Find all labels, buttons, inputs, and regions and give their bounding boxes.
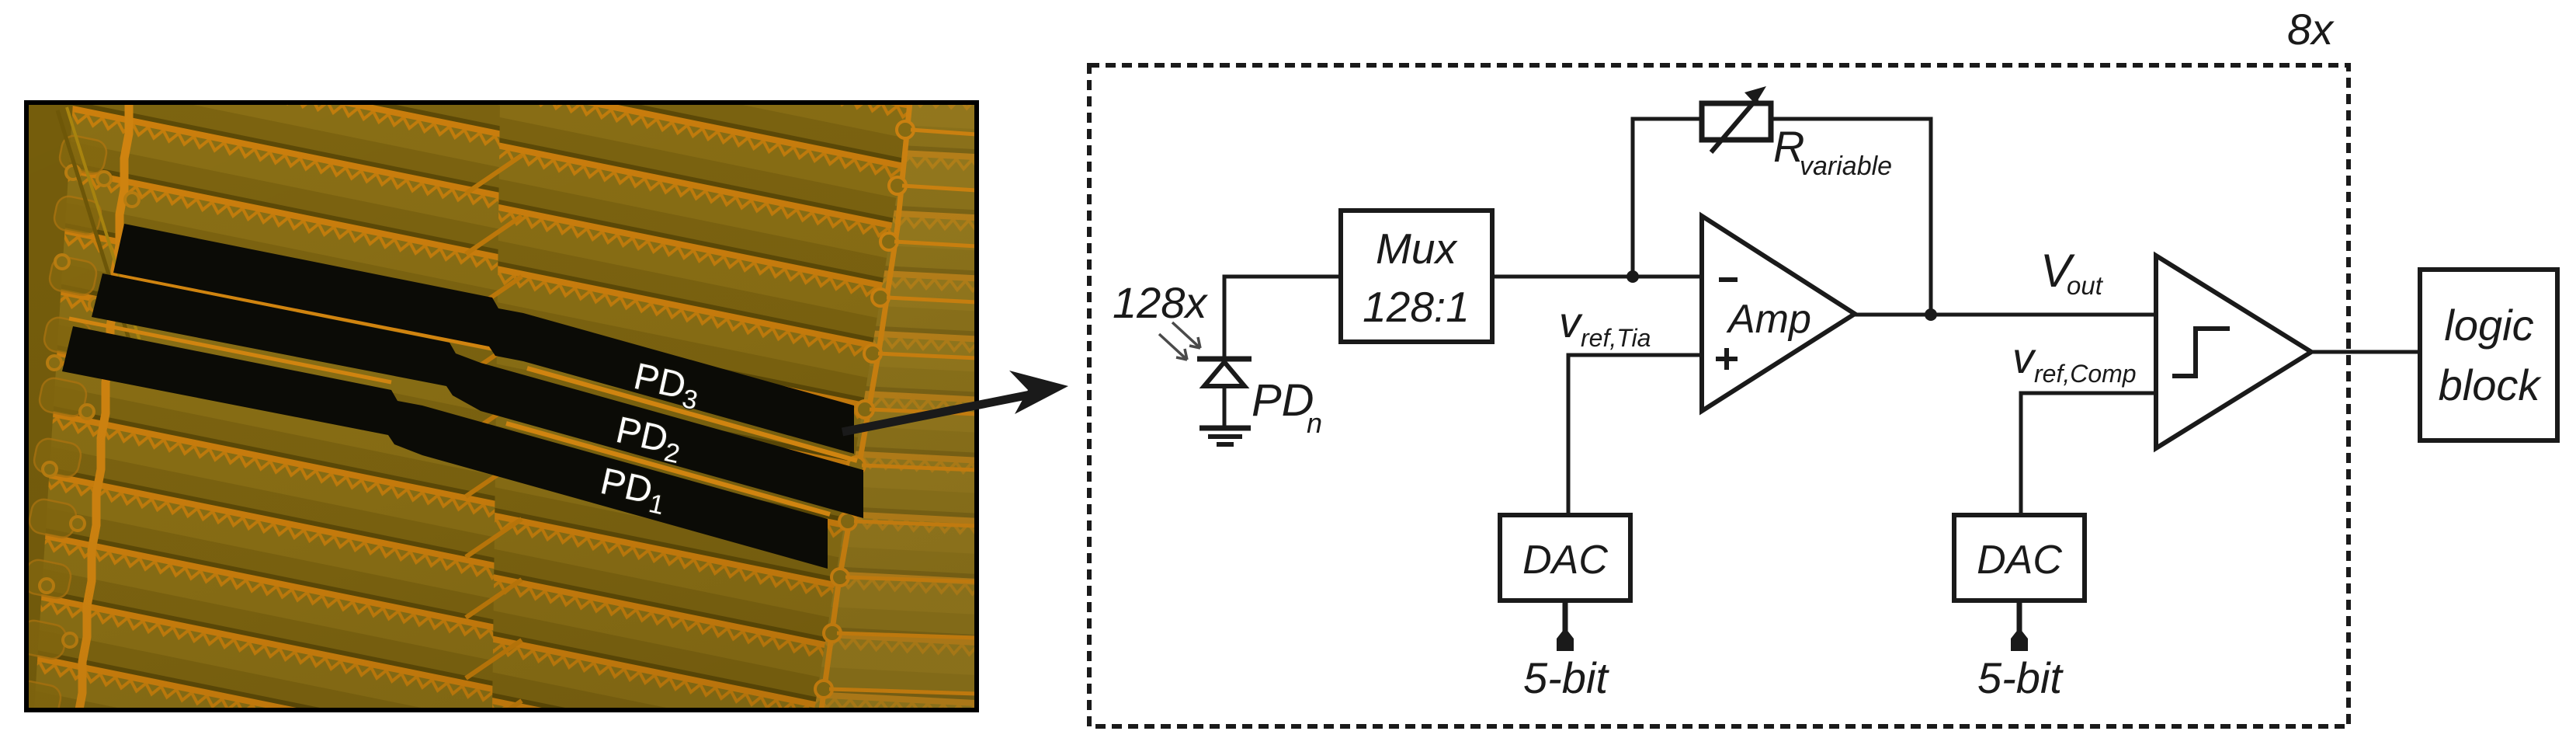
- wire comparator output to logic block: [2311, 350, 2420, 354]
- DAC comparator reference: [1954, 515, 2085, 601]
- gap trace right of PD2/PD1: [506, 423, 830, 514]
- svg-text:Amp: Amp: [1726, 297, 1811, 342]
- logic block: [2420, 270, 2557, 440]
- label PD3: [629, 356, 704, 416]
- svg-text:v: v: [2012, 333, 2036, 382]
- wire feedback left segment: [1633, 119, 1704, 277]
- svg-text:v: v: [1559, 298, 1583, 346]
- photodiode bar PD2: [92, 273, 863, 518]
- svg-text:Mux: Mux: [1376, 225, 1458, 273]
- pin 5-bit DAC2: [2011, 628, 2028, 651]
- ground: [1199, 428, 1251, 444]
- svg-text:ref,Comp: ref,Comp: [2034, 360, 2137, 388]
- vignette: [26, 103, 977, 710]
- DAC TIA reference: [1500, 515, 1630, 601]
- svg-text:logic: logic: [2444, 301, 2533, 350]
- wire Mux output to Amp inverting input: [1492, 275, 1702, 279]
- wire DAC1 5-bit pin: [1563, 601, 1568, 634]
- photodiode PDn: [1197, 359, 1252, 386]
- svg-text:5-bit: 5-bit: [1523, 653, 1609, 702]
- wire vrefComp to comparator input: [2021, 393, 2156, 515]
- junction output node: [1925, 308, 1937, 321]
- svg-text:128x: 128x: [1113, 278, 1208, 327]
- gap trace between PD3 and PD2: [120, 275, 492, 349]
- photo frame: [26, 103, 977, 710]
- wire vrefTia to Amp + input: [1568, 355, 1702, 515]
- svg-text:128:1: 128:1: [1363, 283, 1470, 331]
- enclosing dashed block repeated 8x: [1089, 65, 2349, 726]
- wire Vout Amp output to comparator: [1855, 313, 2156, 317]
- svg-text:PD: PD: [1252, 375, 1314, 426]
- svg-text:ref,Tia: ref,Tia: [1581, 324, 1651, 352]
- svg-text:DAC: DAC: [1522, 538, 1608, 583]
- svg-text:n: n: [1307, 407, 1322, 439]
- wire photodiode to Mux: [1224, 277, 1341, 430]
- mux Mux 128:1: [1341, 211, 1492, 342]
- junction feedback tap: [1626, 270, 1639, 283]
- svg-text:5-bit: 5-bit: [1977, 653, 2064, 702]
- label PD1: [595, 461, 671, 520]
- resistor Rvariable: [1702, 86, 1771, 152]
- gap trace between PD2 and PD1: [69, 319, 391, 382]
- svg-text:variable: variable: [1800, 151, 1892, 181]
- gap trace right of PD3/PD2: [527, 368, 857, 461]
- svg-text:out: out: [2067, 271, 2104, 300]
- svg-text:DAC: DAC: [1977, 538, 2062, 583]
- label PD2: [611, 409, 686, 469]
- light arrows into photodiode: [1159, 322, 1200, 360]
- photodiode bar PD1: [62, 326, 828, 569]
- svg-text:block: block: [2439, 360, 2543, 409]
- wire feedback right segment: [1771, 119, 1931, 315]
- comparator with hysteresis: [2156, 256, 2311, 448]
- pin 5-bit DAC1: [1557, 628, 1574, 651]
- op-amp Amp: [1702, 216, 1855, 411]
- arrow photo to schematic: [842, 371, 1068, 432]
- photodiode bar PD3: [113, 224, 854, 454]
- wire DAC2 5-bit pin: [2017, 601, 2022, 634]
- svg-text:8x: 8x: [2287, 5, 2335, 54]
